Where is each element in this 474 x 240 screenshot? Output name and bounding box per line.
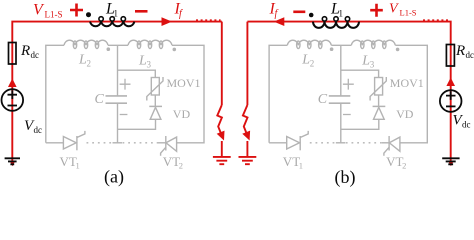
- svg-text:L1-S: L1-S: [45, 10, 63, 20]
- svg-text:MOV1: MOV1: [167, 76, 201, 90]
- svg-text:V: V: [389, 2, 399, 17]
- svg-text:dc: dc: [31, 50, 40, 60]
- svg-text:1: 1: [339, 9, 344, 19]
- svg-text:3: 3: [147, 60, 152, 70]
- svg-text:C: C: [95, 92, 105, 107]
- svg-text:(b): (b): [335, 167, 356, 187]
- svg-text:2: 2: [179, 161, 183, 171]
- svg-text:2: 2: [87, 59, 92, 69]
- svg-text:dc: dc: [34, 125, 43, 135]
- svg-text:VT: VT: [60, 154, 77, 169]
- svg-text:1: 1: [114, 9, 119, 19]
- svg-text:dc: dc: [466, 50, 474, 60]
- svg-text:L1-S: L1-S: [400, 8, 417, 18]
- svg-text:R: R: [20, 43, 30, 59]
- svg-text:VT: VT: [163, 154, 180, 169]
- svg-text:dc: dc: [462, 120, 471, 130]
- svg-text:VD: VD: [173, 107, 191, 121]
- svg-text:R: R: [455, 43, 465, 59]
- svg-text:1: 1: [76, 161, 80, 171]
- svg-text:(a): (a): [104, 167, 124, 188]
